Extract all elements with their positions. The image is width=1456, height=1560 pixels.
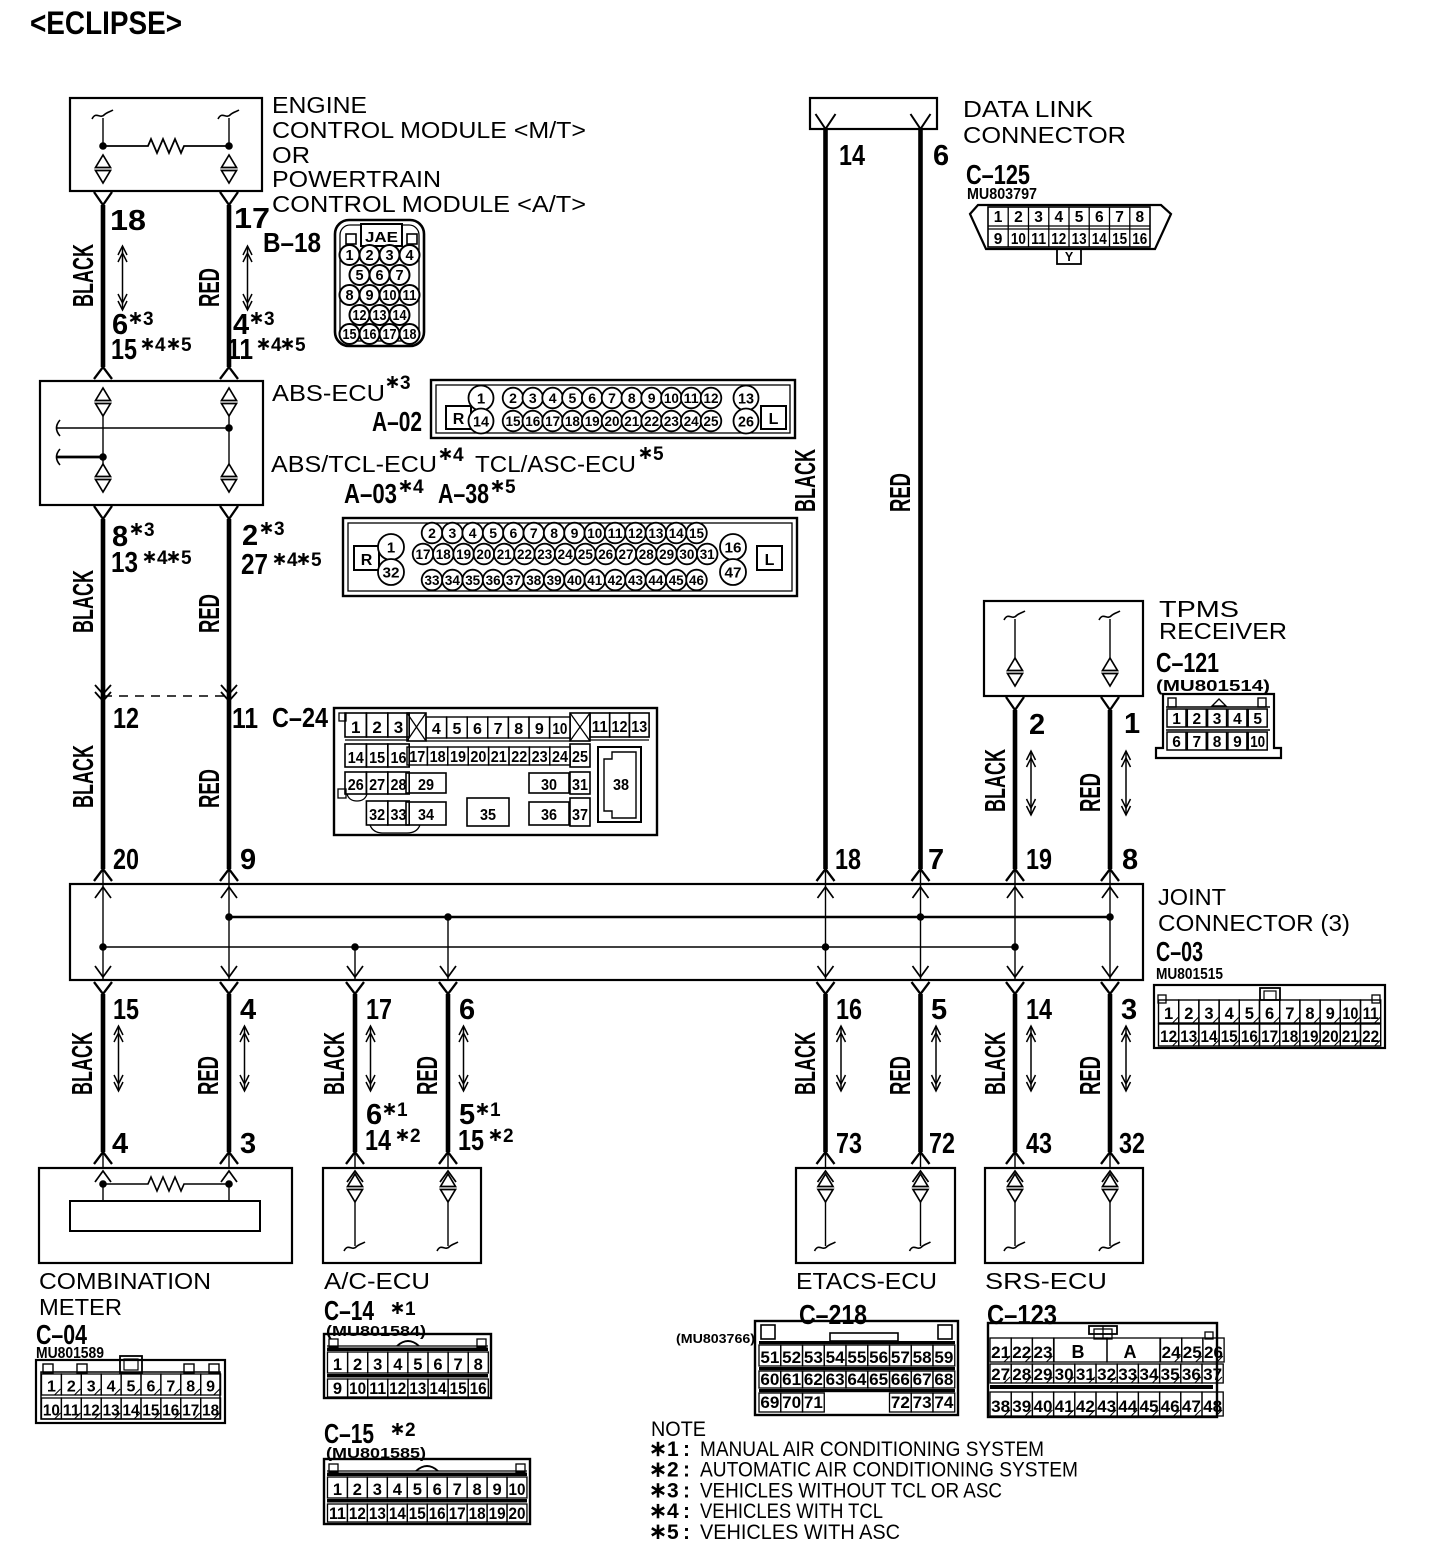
svg-text:22: 22 (644, 413, 659, 429)
svg-text:11: 11 (608, 525, 623, 541)
svg-text:7: 7 (166, 1379, 175, 1396)
wire CAN BLACK pin18 ECM to ABS pin8/13 (94, 192, 112, 379)
svg-text:17: 17 (545, 413, 560, 429)
arrow twisted-pair left (118, 246, 127, 310)
DATA LINK CONNECTOR box (810, 98, 937, 129)
svg-text:BLACK: BLACK (68, 570, 100, 633)
svg-text:9: 9 (333, 1380, 342, 1398)
svg-text:A: A (1124, 1342, 1137, 1362)
joint internal wire 6 (447, 917, 449, 980)
svg-text:26: 26 (348, 777, 364, 794)
TPMS internal curl right (1099, 611, 1120, 620)
svg-text:7: 7 (608, 390, 616, 406)
svg-text:16: 16 (525, 413, 540, 429)
svg-text:27: 27 (369, 777, 385, 794)
svg-text:(MU801584): (MU801584) (326, 1323, 426, 1340)
svg-text:8: 8 (473, 1481, 482, 1499)
svg-text:BLACK: BLACK (68, 745, 100, 808)
svg-text:22: 22 (517, 546, 532, 562)
svg-text:20: 20 (605, 413, 620, 429)
svg-text:15: 15 (1112, 231, 1127, 248)
svg-text:73: 73 (836, 1128, 862, 1160)
svg-text:21: 21 (497, 546, 512, 562)
svg-text:5: 5 (413, 1481, 422, 1499)
note 3 (657, 1483, 660, 1497)
svg-text:32: 32 (369, 807, 385, 824)
svg-text:10: 10 (43, 1403, 60, 1420)
svg-text:RED: RED (885, 473, 917, 512)
svg-text:12: 12 (389, 1380, 406, 1398)
svg-text:22: 22 (511, 749, 527, 766)
svg-text:4: 4 (413, 477, 424, 498)
svg-text:32: 32 (383, 565, 400, 582)
svg-text:42: 42 (608, 572, 623, 588)
connector B-18 pin face (JAE) (335, 220, 424, 346)
arrow TPMS left (1027, 751, 1036, 815)
ETACS edge chevrons (818, 1171, 834, 1182)
ECM internal twisted-pair curl left (92, 110, 113, 119)
svg-text:2: 2 (503, 1126, 514, 1147)
svg-text:8: 8 (1122, 844, 1138, 876)
svg-text:11: 11 (684, 390, 699, 406)
svg-text:12: 12 (349, 1505, 366, 1523)
svg-text:4: 4 (155, 335, 166, 356)
connector C-123 pin face (988, 1323, 1224, 1417)
svg-text:3: 3 (529, 390, 537, 406)
svg-text:59: 59 (934, 1349, 953, 1367)
svg-text:AUTOMATIC AIR CONDITIONING SYS: AUTOMATIC AIR CONDITIONING SYSTEM (700, 1459, 1078, 1482)
svg-text:11: 11 (592, 719, 608, 736)
A/C internal wire left (354, 1202, 356, 1246)
svg-text:4: 4 (469, 525, 477, 541)
svg-text:12: 12 (1051, 231, 1066, 248)
svg-text:25: 25 (704, 413, 719, 429)
svg-text:36: 36 (486, 572, 501, 588)
svg-text:POWERTRAIN: POWERTRAIN (272, 166, 441, 192)
joint internal wire 7-5 (920, 884, 922, 980)
svg-text:26: 26 (738, 414, 754, 431)
svg-text:30: 30 (679, 546, 694, 562)
svg-text:3: 3 (264, 309, 275, 330)
svg-text:A–38: A–38 (438, 478, 489, 509)
joint box edge chevrons bottom (95, 966, 111, 977)
shield symbol TPMS left (1008, 658, 1023, 671)
svg-text:CONNECTOR (3): CONNECTOR (3) (1158, 910, 1350, 936)
svg-text:5: 5 (181, 335, 192, 356)
svg-text:10: 10 (349, 1380, 366, 1398)
svg-text:RED: RED (885, 1056, 917, 1095)
svg-text:60: 60 (760, 1371, 779, 1389)
junction dot ABS left (99, 453, 107, 461)
svg-text:4: 4 (271, 335, 282, 356)
svg-text:29: 29 (1034, 1366, 1053, 1384)
svg-text:OR: OR (272, 142, 310, 168)
svg-text:12: 12 (704, 390, 719, 406)
svg-text:TCL/ASC-ECU: TCL/ASC-ECU (475, 451, 636, 477)
svg-text:11: 11 (403, 288, 417, 304)
note 5 (657, 1525, 660, 1539)
svg-text:7: 7 (928, 844, 944, 876)
svg-text:BLACK: BLACK (67, 1032, 99, 1095)
svg-text:15: 15 (458, 1125, 484, 1157)
wire start fork DLC right (911, 114, 931, 129)
arrow ETACS right (932, 1026, 941, 1091)
svg-text:DATA LINK: DATA LINK (963, 96, 1093, 122)
svg-text:1: 1 (667, 1438, 679, 1461)
svg-text:1: 1 (1124, 708, 1140, 740)
svg-text:2: 2 (372, 718, 381, 737)
svg-text:14: 14 (1092, 231, 1107, 248)
svg-text:14: 14 (123, 1403, 140, 1420)
wire CAN BLACK TPMS pin2 to joint pin19 (1006, 697, 1024, 710)
connector C-24 pin face (334, 708, 657, 835)
svg-text:18: 18 (565, 413, 580, 429)
svg-text:9: 9 (535, 721, 544, 738)
CAN RED bus bar (229, 916, 1110, 919)
svg-text:1: 1 (387, 540, 395, 557)
svg-text:37: 37 (572, 807, 588, 824)
svg-text:RECEIVER: RECEIVER (1159, 618, 1287, 644)
svg-text:1: 1 (345, 248, 353, 264)
svg-text:43: 43 (628, 572, 643, 588)
svg-text:4: 4 (107, 1379, 116, 1396)
ECM internal wire left (102, 118, 104, 146)
terminating resistor inside ECM (103, 139, 229, 153)
connector C-04 pin face (36, 1356, 225, 1423)
svg-text:10: 10 (1250, 734, 1265, 751)
svg-text:10: 10 (1011, 231, 1026, 248)
svg-text:40: 40 (567, 572, 582, 588)
arrow TPMS right (1122, 751, 1131, 815)
svg-text::: : (683, 1479, 690, 1502)
svg-text:VEHICLES WITHOUT TCL OR ASC: VEHICLES WITHOUT TCL OR ASC (700, 1479, 1002, 1502)
svg-text:9: 9 (206, 1379, 215, 1396)
wire RED joint pin6 to A/C-ECU (439, 982, 457, 1168)
svg-text:18: 18 (436, 546, 451, 562)
svg-text:16: 16 (162, 1403, 179, 1420)
svg-text:3: 3 (240, 1128, 256, 1160)
svg-text:13: 13 (648, 525, 663, 541)
svg-text:6: 6 (1172, 734, 1181, 751)
svg-text:4: 4 (157, 548, 168, 569)
svg-text:36: 36 (1182, 1366, 1201, 1384)
svg-text:5: 5 (1245, 1005, 1254, 1023)
inline connector marks C-24 left (95, 685, 111, 694)
svg-text:1: 1 (351, 718, 360, 737)
svg-text:R: R (453, 411, 465, 428)
ABS-ECU box (40, 381, 263, 505)
svg-text:14: 14 (669, 525, 684, 541)
svg-text:RED: RED (1075, 773, 1107, 812)
A/C-ECU box (323, 1168, 481, 1263)
svg-text:72: 72 (929, 1128, 955, 1160)
svg-text:12: 12 (113, 703, 139, 735)
shield symbol A/C left (348, 1174, 363, 1187)
svg-text:24: 24 (558, 546, 573, 562)
svg-text:54: 54 (826, 1349, 846, 1367)
svg-text:15: 15 (369, 750, 385, 767)
svg-text:B: B (1072, 1342, 1085, 1362)
svg-text:9: 9 (365, 288, 373, 304)
svg-text:30: 30 (541, 777, 557, 794)
svg-text:ABS/TCL-ECU: ABS/TCL-ECU (271, 451, 437, 477)
svg-text:47: 47 (725, 565, 742, 582)
svg-text:7: 7 (453, 1481, 462, 1499)
svg-text:18: 18 (835, 844, 861, 876)
svg-text:7: 7 (395, 268, 403, 284)
joint internal wire 17 (354, 947, 356, 980)
svg-text:15: 15 (142, 1403, 159, 1420)
svg-text:36: 36 (541, 807, 557, 824)
svg-text:13: 13 (369, 1505, 386, 1523)
ECM box: ENGINE/POWERTRAIN CONTROL MODULE (70, 98, 262, 191)
svg-text:13: 13 (1072, 231, 1087, 248)
svg-text:15: 15 (113, 994, 139, 1026)
svg-text:RED: RED (193, 1056, 225, 1095)
svg-text::: : (683, 1521, 690, 1544)
svg-text:34: 34 (445, 572, 460, 588)
svg-text:65: 65 (869, 1371, 888, 1389)
svg-text:18: 18 (430, 749, 446, 766)
svg-text:3: 3 (87, 1379, 96, 1396)
svg-text:6: 6 (510, 525, 518, 541)
svg-text:4: 4 (393, 1481, 403, 1499)
ETACS-ECU box (796, 1168, 955, 1263)
svg-text:RED: RED (1075, 1056, 1107, 1095)
svg-text:CONNECTOR: CONNECTOR (963, 122, 1126, 148)
COMBINATION METER box (39, 1168, 292, 1263)
svg-text:(MU801514): (MU801514) (1156, 678, 1270, 695)
shield symbol ABS top right (222, 388, 237, 401)
svg-text:A/C-ECU: A/C-ECU (324, 1268, 430, 1294)
shield symbol ABS bottom left (96, 464, 111, 477)
svg-text:6: 6 (1265, 1005, 1274, 1023)
svg-text:9: 9 (648, 390, 656, 406)
note 4 (657, 1504, 660, 1518)
svg-text:17: 17 (416, 546, 431, 562)
svg-text:38: 38 (613, 777, 629, 794)
svg-text:35: 35 (1161, 1366, 1180, 1384)
svg-text:67: 67 (913, 1371, 932, 1389)
svg-text:8: 8 (628, 390, 636, 406)
svg-text:1: 1 (994, 209, 1003, 226)
svg-text:3: 3 (667, 1479, 679, 1502)
svg-text:10: 10 (1342, 1005, 1358, 1023)
svg-text:11: 11 (232, 703, 258, 735)
svg-text:3: 3 (1213, 711, 1222, 728)
svg-text:3: 3 (1034, 209, 1043, 226)
svg-text:<ECLIPSE>: <ECLIPSE> (30, 5, 182, 41)
arrow ETACS left (837, 1026, 846, 1091)
svg-text:COMBINATION: COMBINATION (39, 1268, 211, 1294)
shield symbol ETACS right (913, 1174, 928, 1187)
svg-text:ENGINE: ENGINE (272, 92, 367, 118)
svg-text:1: 1 (1164, 1005, 1173, 1023)
svg-text:31: 31 (572, 777, 588, 794)
svg-text:BLACK: BLACK (68, 244, 100, 307)
svg-text:8: 8 (345, 288, 353, 304)
svg-text:58: 58 (913, 1349, 932, 1367)
svg-text:5: 5 (355, 268, 363, 284)
svg-text:3: 3 (144, 520, 155, 541)
svg-text:19: 19 (1026, 844, 1052, 876)
svg-text:RED: RED (412, 1056, 444, 1095)
svg-text:11: 11 (227, 334, 253, 366)
svg-text:9: 9 (1233, 734, 1242, 751)
svg-text:17: 17 (383, 327, 397, 343)
svg-text:BLACK: BLACK (790, 449, 822, 512)
svg-text:ABS-ECU: ABS-ECU (272, 380, 385, 406)
svg-text:38: 38 (526, 572, 541, 588)
svg-text:1: 1 (1172, 711, 1181, 728)
svg-text:16: 16 (836, 994, 862, 1026)
svg-text:7: 7 (1115, 209, 1124, 226)
svg-text:2: 2 (405, 1420, 416, 1441)
SRS internal wire left (1014, 1202, 1016, 1246)
svg-text:6: 6 (588, 390, 596, 406)
junction dot ECM left (99, 142, 107, 150)
svg-text:6: 6 (1095, 209, 1104, 226)
svg-text:31: 31 (1076, 1366, 1095, 1384)
wire BLACK joint pin15 to comb meter pin4 (94, 982, 112, 1168)
svg-text:2: 2 (1192, 711, 1201, 728)
svg-text:20: 20 (470, 749, 486, 766)
svg-text:56: 56 (869, 1349, 888, 1367)
svg-text:7: 7 (1285, 1005, 1294, 1023)
svg-text:27: 27 (619, 546, 634, 562)
svg-text:R: R (361, 552, 373, 569)
svg-text:3: 3 (1121, 994, 1137, 1026)
svg-text:1: 1 (333, 1481, 342, 1499)
svg-text:7: 7 (530, 525, 538, 541)
svg-text:74: 74 (934, 1394, 954, 1412)
svg-text:10: 10 (587, 525, 602, 541)
svg-text:20: 20 (476, 546, 491, 562)
svg-text:4: 4 (112, 1128, 128, 1160)
svg-text:SRS-ECU: SRS-ECU (985, 1268, 1107, 1294)
svg-text:8: 8 (1135, 209, 1144, 226)
ground curl A/C left (344, 1242, 365, 1251)
svg-text:BLACK: BLACK (980, 749, 1012, 812)
SRS-ECU box (985, 1168, 1143, 1263)
wire CAN RED TPMS pin1 to joint pin8 (1101, 697, 1119, 710)
svg-text:4: 4 (287, 550, 298, 571)
ground curl ETACS left (815, 1242, 836, 1251)
svg-text:1: 1 (47, 1379, 56, 1396)
svg-text:24: 24 (552, 749, 568, 766)
svg-text:35: 35 (480, 807, 496, 824)
svg-text:2: 2 (67, 1379, 76, 1396)
svg-text:3: 3 (1204, 1005, 1213, 1023)
svg-text:3: 3 (143, 309, 154, 330)
svg-text:(MU803766): (MU803766) (676, 1331, 755, 1346)
svg-text:2: 2 (365, 248, 373, 264)
svg-text:CONTROL MODULE <M/T>: CONTROL MODULE <M/T> (272, 117, 586, 143)
svg-text:VEHICLES WITH ASC: VEHICLES WITH ASC (700, 1521, 900, 1544)
connector C-218 pin face (755, 1321, 958, 1415)
svg-text:25: 25 (578, 546, 593, 562)
arrow twisted-pair right (243, 246, 252, 310)
bus junction dots (225, 913, 233, 921)
CAN BLACK bus bar (103, 946, 1015, 948)
svg-text:17: 17 (182, 1403, 199, 1420)
joint connector C-03 box (70, 884, 1143, 980)
svg-text:5: 5 (667, 1521, 679, 1544)
A/C edge chevrons (347, 1171, 363, 1182)
svg-text:34: 34 (418, 807, 434, 824)
svg-text:8: 8 (474, 1356, 483, 1374)
connector C-121 pin face (1156, 694, 1281, 758)
svg-text:18: 18 (202, 1403, 219, 1420)
svg-text:28: 28 (391, 777, 407, 794)
svg-text:1: 1 (333, 1356, 342, 1374)
svg-text:16: 16 (470, 1380, 487, 1398)
comb meter internal module rect (70, 1201, 260, 1231)
ground curl ETACS right (910, 1242, 931, 1251)
svg-text:19: 19 (450, 749, 466, 766)
svg-text:13: 13 (103, 1403, 120, 1420)
shield symbol ECM left (96, 155, 111, 168)
svg-text:3: 3 (449, 525, 457, 541)
svg-text:5: 5 (295, 335, 306, 356)
wire BLACK joint pin16 to ETACS pin73 (817, 982, 835, 1168)
svg-text:6: 6 (146, 1379, 155, 1396)
svg-text:19: 19 (489, 1505, 506, 1523)
svg-text:8: 8 (550, 525, 558, 541)
wire CAN RED DLC pin6 to joint pin7 (918, 129, 923, 869)
svg-text:2: 2 (353, 1481, 362, 1499)
svg-text:14: 14 (389, 1505, 407, 1523)
wire CAN RED ABS pin2/27 to joint pin9 (220, 506, 238, 884)
shield symbol SRS right (1103, 1174, 1118, 1187)
svg-text:6: 6 (433, 1356, 442, 1374)
ETACS internal wire right (920, 1202, 922, 1246)
svg-text:4: 4 (549, 390, 557, 406)
arrow A/C right (459, 1026, 468, 1091)
svg-text:5: 5 (653, 444, 664, 465)
note 2 (657, 1463, 660, 1477)
svg-text:17: 17 (409, 749, 425, 766)
svg-text:69: 69 (760, 1394, 779, 1412)
svg-text:15: 15 (111, 334, 137, 366)
svg-text:15: 15 (409, 1505, 426, 1523)
svg-text:31: 31 (700, 546, 715, 562)
svg-text:2: 2 (667, 1459, 679, 1482)
svg-text:71: 71 (804, 1394, 823, 1412)
svg-text:5: 5 (1253, 711, 1262, 728)
svg-text:2: 2 (410, 1126, 421, 1147)
svg-text:37: 37 (506, 572, 521, 588)
svg-text:12: 12 (628, 525, 643, 541)
joint box edge chevrons top (95, 887, 111, 898)
svg-text:1: 1 (397, 1100, 408, 1121)
svg-text:45: 45 (669, 572, 684, 588)
junction dot comb left (99, 1180, 107, 1188)
svg-text:64: 64 (847, 1371, 867, 1389)
comb meter edge chevrons (95, 1171, 111, 1182)
svg-text:35: 35 (465, 572, 480, 588)
svg-text:14: 14 (393, 308, 407, 324)
svg-text:15: 15 (506, 413, 521, 429)
svg-text:39: 39 (547, 572, 562, 588)
svg-text:5: 5 (489, 525, 497, 541)
svg-text:46: 46 (689, 572, 704, 588)
svg-text:51: 51 (760, 1349, 779, 1367)
svg-text:5: 5 (1075, 209, 1084, 226)
svg-text:2: 2 (1184, 1005, 1193, 1023)
svg-text:19: 19 (456, 546, 471, 562)
svg-text:25: 25 (572, 749, 588, 766)
